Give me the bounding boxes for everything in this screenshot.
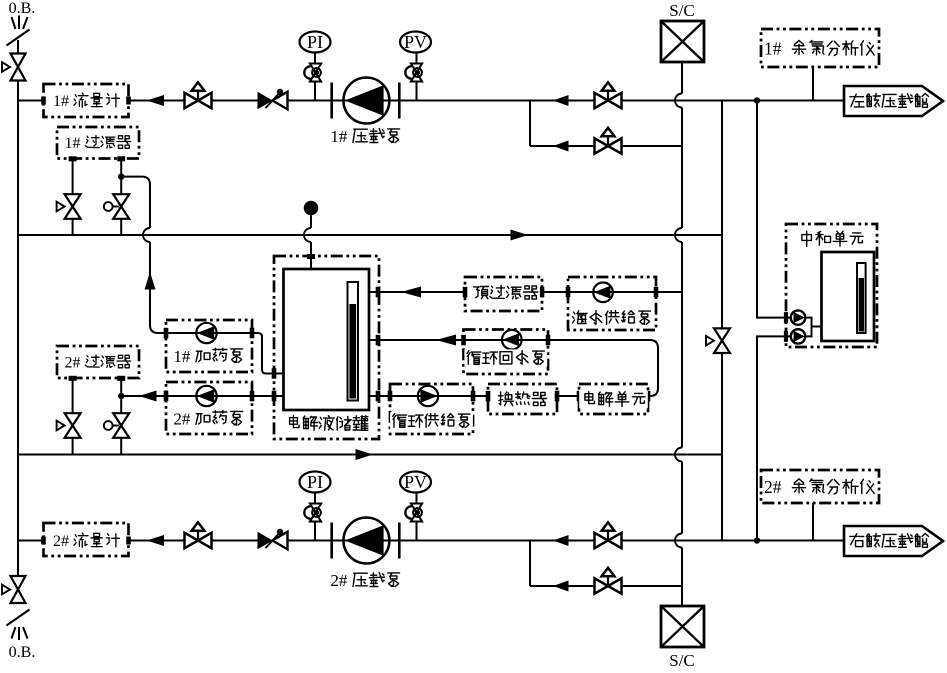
- wire row4 left segment: [18, 540, 44, 542]
- arrow on row2: [511, 230, 529, 241]
- seawater pump SWP label: [571, 309, 654, 326]
- arrow on row4 into FM2: [147, 535, 165, 546]
- dosing pump DP2 impeller: [196, 386, 216, 406]
- connector HX right: [555, 391, 560, 402]
- wire branch row bottom y=586: [530, 585, 682, 587]
- instrument valve PV2: [411, 504, 422, 513]
- analyzer A2 box 2# residual chlorine analyzer: [761, 470, 879, 503]
- flow meter FM2 label: [52, 532, 121, 549]
- wire row2: [18, 234, 722, 236]
- CSP impeller: [418, 386, 438, 406]
- flag port ballast tank label: [850, 94, 864, 107]
- NU pump NP1: [791, 310, 805, 324]
- wire from neutralization pump NP2 down to node J2: [757, 336, 791, 540]
- wire filter F2 left drain: [72, 378, 74, 454]
- valve V7 branch row bottom: [595, 578, 609, 593]
- valve V2 row1: [595, 93, 609, 108]
- valve V12 on F2 left drain: [65, 413, 81, 425]
- vent symbol bottom left: [12, 627, 16, 639]
- connector FM2 left: [41, 537, 46, 545]
- tank TK1 level gauge: [348, 282, 359, 401]
- junction row1 to branch row: [529, 101, 531, 147]
- node on F2 right drain: [118, 393, 124, 399]
- connector FM2 right: [126, 537, 131, 545]
- flange right of pump P1: [398, 83, 401, 119]
- filter F1 label: [64, 134, 133, 151]
- filter F2 box 2# filter: [57, 346, 139, 378]
- filter F2 label: [64, 354, 133, 371]
- valve V6 row4: [595, 533, 609, 548]
- wire sensor to tank: [310, 215, 312, 228]
- instrument stem PI1: [314, 53, 316, 101]
- flow meter FM1 label: [52, 92, 121, 109]
- wire from F1 drain node to dosing pump DP1: [121, 177, 150, 228]
- filter F1 box 1# filter: [57, 127, 139, 159]
- CRP label: [464, 349, 547, 366]
- gauge PV2: [400, 472, 431, 493]
- connector DP1 right: [250, 328, 255, 339]
- connector tank TK1 left lower: [272, 391, 277, 402]
- neutralization unit NU label: [797, 230, 866, 248]
- wire through DP1: [166, 332, 252, 334]
- connector PF right: [540, 287, 545, 298]
- NU vessel: [822, 252, 875, 341]
- connector CSP left: [388, 391, 393, 402]
- analyzer A1 label: [763, 39, 877, 57]
- valve V1 row1: [185, 93, 199, 108]
- wire sea chest vertical: [681, 62, 683, 94]
- flange right of pump P2: [398, 523, 401, 559]
- svg-text:2#: 2#: [764, 477, 782, 497]
- svg-text:S/C: S/C: [669, 1, 695, 20]
- filter F1 left stub: [69, 156, 77, 161]
- wire tank to circulation supply pump CSP: [369, 395, 390, 397]
- connector EU right: [646, 391, 651, 402]
- filter F2 right stub: [117, 376, 125, 381]
- junction row4 to branch row bottom: [529, 541, 531, 587]
- pump P2 label: [329, 571, 402, 589]
- wire filter F2 right drain: [120, 378, 122, 454]
- wire row1 from flowmeter to flag: [129, 100, 845, 102]
- svg-text:2#: 2#: [53, 533, 69, 550]
- CRP impeller: [502, 330, 522, 350]
- butterfly valve BV2 row4: [258, 532, 273, 550]
- wire DP1 to tank TK1: [252, 333, 284, 374]
- svg-text:PV: PV: [404, 32, 427, 52]
- connector DP1 left: [164, 328, 169, 339]
- circulation supply pump CSP box: [390, 384, 473, 434]
- instrument stem PV2: [416, 493, 418, 541]
- svg-text:1#: 1#: [330, 127, 348, 146]
- tank TK1 outer box electrolyte storage tank: [274, 256, 379, 439]
- filter F1 right stub: [117, 156, 125, 161]
- flange left of pump P2: [330, 523, 333, 559]
- prefilter PF box: [465, 277, 542, 311]
- wire DP2 to tank TK1: [252, 395, 284, 397]
- seawater pump SWP impeller: [593, 283, 613, 303]
- wire from node J1 to neutralization pump NP1: [757, 101, 791, 318]
- flange left of pump P1: [330, 83, 333, 119]
- connector tank TK1 right upper: [376, 287, 381, 298]
- arrow on row1 before valve V2: [553, 95, 569, 106]
- connector EU left: [577, 391, 582, 402]
- connector SWP left: [566, 287, 571, 298]
- connector DP2 right: [250, 391, 255, 402]
- wire DP2 to filter F2 drain node: [121, 395, 166, 397]
- flag starboard ballast tank label: [850, 534, 864, 547]
- arrow on branch row bottom: [553, 581, 569, 592]
- svg-text:1#: 1#: [173, 347, 191, 366]
- gauge PV1: [400, 32, 431, 53]
- wire through CSP: [390, 395, 473, 397]
- wire filter F1 left drain: [72, 159, 74, 235]
- arrow on row3: [356, 449, 374, 460]
- svg-text:PI: PI: [307, 32, 323, 52]
- filter F2 left stub: [69, 376, 77, 381]
- svg-text:PV: PV: [404, 472, 427, 492]
- valve V4 on crossover line: [714, 328, 730, 340]
- dosing pump DP1 box 1# dosing pump: [166, 320, 252, 372]
- NU pump NP2: [791, 329, 805, 343]
- instrument stem PI2: [314, 493, 316, 541]
- svg-text:2#: 2#: [65, 354, 81, 371]
- analyzer A2 stem: [812, 503, 814, 541]
- svg-text:2#: 2#: [330, 571, 348, 590]
- svg-text:1#: 1#: [53, 93, 69, 110]
- instrument valve PV1: [411, 64, 422, 73]
- tank TK1 vessel: [284, 269, 370, 410]
- tank TK1 label: [284, 415, 369, 433]
- instrument valve PI2: [310, 504, 321, 513]
- connector tank TK1 right middle: [376, 335, 381, 346]
- svg-text:0.B.: 0.B.: [9, 0, 36, 17]
- analyzer A1 box 1# residual chlorine analyzer: [761, 29, 879, 67]
- flag port ballast tank: [844, 86, 943, 116]
- dosing pump DP2 label: [172, 410, 245, 428]
- wire row3: [18, 454, 722, 456]
- node on F1 right drain: [118, 173, 124, 179]
- valve V8 on left pipe top: [11, 54, 26, 68]
- connector HX left: [486, 391, 491, 402]
- svg-text:1#: 1#: [65, 135, 81, 152]
- wire CSP to heat exchanger HX: [473, 395, 488, 397]
- connector tank TK1 left upper: [272, 368, 277, 379]
- connector tank TK1 top: [307, 254, 315, 259]
- neutralization unit NU box: [786, 224, 877, 347]
- valve V9 on left pipe bottom: [11, 576, 26, 590]
- wire through DP2: [166, 395, 252, 397]
- dosing pump DP1 impeller: [196, 323, 216, 343]
- svg-text:PI: PI: [307, 472, 323, 492]
- pump P2 2# ballast pump: [343, 518, 389, 564]
- seawater pump SWP box: [568, 277, 656, 330]
- svg-text:2#: 2#: [173, 409, 191, 428]
- sea chest SC2 box: [661, 606, 704, 647]
- arrow into tank on prefilter line: [401, 287, 421, 298]
- connector PF left: [463, 287, 468, 298]
- NU level gauge: [857, 263, 866, 333]
- arrow into tank on return line: [436, 335, 456, 346]
- heat exchanger HX box: [488, 384, 557, 414]
- dosing pump DP1 label: [172, 347, 245, 365]
- instrument stem PV1: [416, 53, 418, 101]
- connector tank TK1 right lower: [376, 391, 381, 402]
- overboard slash top left: [7, 30, 30, 46]
- arrow on row1 into FM1: [147, 95, 165, 106]
- wire tank to circulation return pump CRP: [369, 339, 464, 341]
- valve V5 row4: [185, 533, 199, 548]
- wire CRP to electrolysis unit EU: [548, 340, 658, 396]
- valve V11 on F1 right drain: [113, 194, 129, 206]
- electrolysis unit EU box: [579, 384, 648, 414]
- wire crossover line x=722: [721, 101, 723, 541]
- wire row1 left segment: [18, 100, 44, 102]
- electrolysis unit EU label: [579, 391, 648, 409]
- arrow on branch row: [553, 141, 569, 152]
- svg-text:S/C: S/C: [669, 651, 695, 670]
- node J1 on row1: [754, 97, 760, 103]
- node J2 on row4: [754, 537, 760, 543]
- wire PF to seawater pump SWP: [542, 291, 568, 293]
- analyzer A2 label: [763, 478, 877, 496]
- circulation return pump CRP box: [464, 330, 549, 375]
- wire left pipe: [17, 40, 19, 576]
- svg-text:1#: 1#: [764, 39, 782, 59]
- connector CRP right: [546, 335, 551, 346]
- valve V3 branch row: [595, 138, 609, 153]
- wire through SWP: [568, 291, 656, 293]
- pump P1 label: [329, 127, 402, 145]
- connector NU pump NP2: [784, 331, 788, 342]
- valve V10 on F1 left drain: [65, 194, 81, 206]
- connector FM1 left: [41, 97, 46, 105]
- flag starboard ballast tank: [844, 526, 943, 556]
- wire branch row y=146: [530, 145, 682, 147]
- heat exchanger HX label: [497, 391, 549, 409]
- wire HX to electrolysis unit EU: [557, 395, 579, 397]
- flow meter FM2 box: [44, 523, 129, 556]
- svg-text:0.B.: 0.B.: [9, 644, 36, 661]
- gauge PI2: [300, 472, 331, 493]
- prefilter PF label: [471, 284, 540, 302]
- dosing pump DP2 box 2# dosing pump: [166, 382, 252, 434]
- CSP label: [390, 412, 473, 429]
- wire filter F1 right drain: [120, 159, 122, 235]
- connector SWP right: [654, 287, 659, 298]
- arrow on row4 before valve V6: [553, 535, 569, 546]
- arrow on DP2 discharge wire: [139, 391, 157, 402]
- analyzer A1 stem: [812, 67, 814, 101]
- sea chest SC1 box: [661, 21, 704, 62]
- arrow up on DP1 suction wire: [145, 272, 156, 290]
- wire SWP to sea chest line: [656, 291, 682, 293]
- connector DP2 left: [164, 391, 169, 402]
- wire row4 from flowmeter to flag: [129, 540, 845, 542]
- connector CSP right: [471, 391, 476, 402]
- connector FM1 right: [126, 97, 131, 105]
- wire NU pumps to vessel: [805, 318, 822, 337]
- valve V13 on F2 right drain: [113, 413, 129, 425]
- gauge PI1: [300, 32, 331, 53]
- instrument valve PI1: [310, 64, 321, 73]
- connector CRP left: [461, 335, 466, 346]
- overboard slash bottom left: [7, 610, 30, 626]
- pump P1 1# ballast pump: [343, 78, 389, 124]
- butterfly valve BV1 row1: [258, 92, 273, 110]
- tank TK1 sensor ball: [304, 201, 319, 216]
- vent symbol top left: [12, 17, 16, 29]
- wire through CRP: [464, 339, 549, 341]
- wire tank to prefilter: [369, 291, 465, 293]
- flow meter FM1 box: [44, 84, 129, 117]
- connector NU pump NP1: [784, 312, 788, 323]
